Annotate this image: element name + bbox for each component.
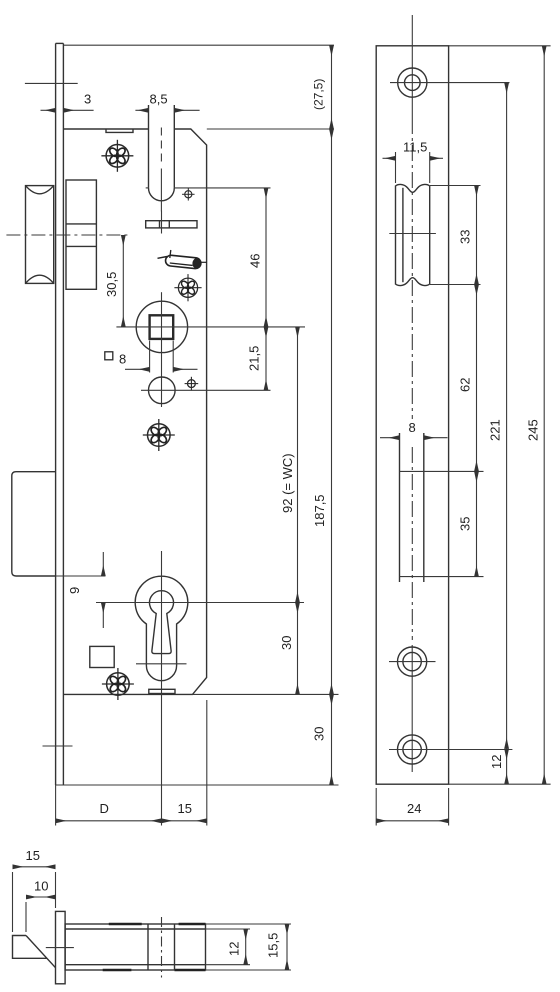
- centerline dash-dot: [411, 118, 413, 419]
- svg-text:8,5: 8,5: [150, 92, 168, 107]
- dim 10 (side): [26, 879, 56, 933]
- top extension line y=45: [63, 44, 334, 46]
- screw B (pozidriv small): [174, 274, 201, 301]
- latch bolt side: [13, 936, 56, 968]
- deadbolt: [12, 472, 106, 576]
- svg-text:24: 24: [407, 801, 421, 816]
- faceplate bottom extension: [56, 784, 339, 786]
- keyhole escutcheon: [96, 551, 304, 700]
- middle screw hole: [389, 647, 436, 676]
- svg-text:9: 9: [67, 587, 82, 594]
- dim 30,5: [104, 235, 123, 327]
- dim 15 (side): [13, 848, 56, 932]
- dim 3: [41, 92, 94, 111]
- screw D (pozidriv): [102, 668, 134, 700]
- dim 92 / 30 line: [279, 327, 298, 695]
- case bottom extension: [193, 693, 339, 695]
- dim 46 / 21,5 line: [247, 188, 267, 390]
- latch slider bar: [146, 211, 197, 234]
- svg-text:10: 10: [34, 879, 48, 894]
- lock case outline: [63, 129, 206, 694]
- latch centerline: [6, 234, 129, 236]
- svg-text:12: 12: [227, 942, 242, 956]
- latch bolt body: [66, 180, 96, 289]
- svg-text:33: 33: [458, 230, 473, 244]
- latch centerline side: [46, 947, 74, 949]
- faceplate break tick bottom: [43, 745, 73, 747]
- dim 221 / 12 line: [488, 83, 507, 785]
- svg-text:15: 15: [178, 801, 192, 816]
- svg-text:30,5: 30,5: [104, 272, 119, 297]
- faceplate outline: [376, 46, 448, 784]
- bottom tab: [149, 689, 175, 693]
- dim 24: [376, 788, 448, 826]
- spring box square: [90, 646, 114, 667]
- thick opening segments: [103, 924, 206, 970]
- svg-text:3: 3: [84, 92, 91, 107]
- section centerline: [161, 917, 163, 978]
- svg-text:8: 8: [409, 420, 416, 435]
- dim 11,5: [383, 140, 444, 184]
- cross mark near cylinder: [185, 377, 199, 391]
- spool cutout (latch opening): [389, 184, 436, 285]
- svg-text:D: D: [100, 801, 109, 816]
- svg-text:92 (= WC): 92 (= WC): [280, 453, 295, 513]
- case top extension to dim line: [207, 128, 334, 130]
- cross mark near channel: [182, 188, 195, 201]
- svg-text:11,5: 11,5: [403, 140, 427, 155]
- svg-text:221: 221: [488, 419, 503, 441]
- faceplate front strip: [56, 43, 64, 785]
- pawl lever: [158, 250, 208, 269]
- dim (27,5) / 187,5 / 30 line: [312, 45, 332, 785]
- dim 245 line: [449, 46, 551, 784]
- svg-text:46: 46: [248, 254, 263, 268]
- svg-text:15: 15: [26, 848, 40, 863]
- screw A (pozidriv): [101, 140, 133, 172]
- dim 15,5 (side): [206, 924, 292, 970]
- svg-text:8: 8: [119, 352, 126, 367]
- dim 9: [67, 552, 103, 628]
- case side outline: [65, 924, 205, 970]
- svg-text:30: 30: [312, 727, 327, 741]
- svg-text:(27,5): (27,5): [312, 79, 326, 110]
- svg-text:12: 12: [489, 755, 504, 769]
- dim 8,5: [135, 92, 199, 111]
- screw C (pozidriv): [143, 419, 175, 451]
- cylinder hole circle: [141, 377, 271, 404]
- dim 8 square (arrows outside): [125, 341, 198, 373]
- bottom screw hole: [389, 735, 512, 764]
- dim 12 (side): [206, 929, 251, 965]
- follower hub: [116, 292, 305, 407]
- svg-text:15,5: 15,5: [266, 933, 281, 958]
- channel bottom reference line: [146, 187, 149, 189]
- follower channel: [149, 105, 175, 211]
- follower channel section lines: [147, 924, 149, 970]
- svg-text:62: 62: [458, 378, 473, 392]
- faceplate break tick top: [25, 82, 78, 84]
- top screw hole: [390, 68, 510, 97]
- svg-text:245: 245: [526, 419, 541, 441]
- faceplate side bar: [56, 911, 66, 983]
- svg-text:187,5: 187,5: [312, 494, 327, 527]
- svg-text:21,5: 21,5: [247, 346, 262, 371]
- svg-text:35: 35: [458, 517, 473, 531]
- svg-text:30: 30: [279, 636, 294, 650]
- latch bolt head: [26, 186, 54, 284]
- spring tab under case top: [106, 129, 133, 132]
- dim 8 slot: [380, 420, 448, 438]
- square symbol + 8 label: [105, 352, 113, 360]
- cylinder slot: [400, 433, 484, 582]
- bottom dim D / 15: [56, 700, 207, 826]
- centerline stub top: [411, 15, 413, 118]
- dim 33 / 62 / 35 line: [430, 186, 481, 577]
